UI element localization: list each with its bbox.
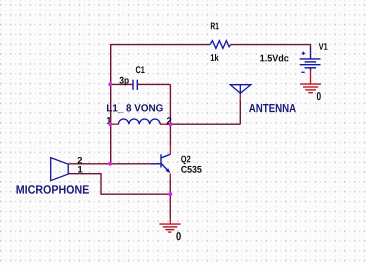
wire microphone pin 2 to rail <box>68 163 110 165</box>
pin 2 of microphone <box>78 157 83 164</box>
node inductor pin1 / left rail <box>108 122 112 126</box>
inductor L1 <box>118 119 160 124</box>
wire junction down to ground <box>169 194 171 218</box>
label L1_ 8 VONG <box>107 104 163 112</box>
label V1 text <box>319 43 328 50</box>
label C535 <box>181 166 201 173</box>
label 0 (emitter ground) <box>176 232 180 240</box>
pin 2 of L1 <box>167 117 172 124</box>
label ANTENNA <box>249 104 296 112</box>
plus sign of V1 <box>302 52 305 55</box>
pin 1 of microphone <box>78 166 82 173</box>
label R1 value text <box>211 23 219 30</box>
ground 0 under transistor <box>159 224 180 232</box>
pin stub emitter (red) <box>169 173 171 179</box>
microphone <box>51 158 68 181</box>
transistor Q2 <box>151 154 170 172</box>
wire right vertical capacitor corner down to collector <box>169 84 171 145</box>
wire top rail left segment <box>110 44 210 46</box>
wire rail to transistor base <box>111 163 151 165</box>
pin 1 of L1 <box>107 117 111 124</box>
arrow of Q2 emitter <box>166 168 170 172</box>
label 1.5Vdc <box>260 54 288 61</box>
wire capacitor row right <box>138 83 171 85</box>
wire battery corner drop <box>310 44 312 49</box>
label C1 text <box>136 66 145 73</box>
wire battery to ground 0 (red) <box>310 71 312 85</box>
resistor R1 <box>210 41 231 49</box>
capacitor C1 <box>133 80 137 90</box>
junction node dots <box>108 83 172 197</box>
wire capacitor row left <box>111 83 133 85</box>
label Q2 text <box>181 156 190 165</box>
antenna <box>230 85 251 94</box>
wire emitter to junction <box>169 179 171 194</box>
pin stub antenna (red) <box>239 93 241 101</box>
ground 0 under battery <box>300 84 321 93</box>
minus sign of V1 <box>301 71 304 73</box>
label 1k <box>211 54 219 61</box>
node capacitor row / left rail <box>108 83 112 87</box>
wire antenna horizontal <box>170 123 240 125</box>
battery V1 <box>300 48 321 70</box>
pin stub ground (red) <box>169 218 171 224</box>
wire top rail right segment to battery <box>231 44 311 46</box>
label 3p <box>119 77 128 86</box>
label MICROPHONE <box>17 185 89 193</box>
node inductor pin2 / collector / antenna <box>169 122 173 126</box>
wire antenna vertical <box>239 101 241 124</box>
wire microphone pin 1 return path <box>68 174 170 195</box>
node mic pin2 / transistor base <box>108 162 112 166</box>
pin stub inductor right (red) <box>160 123 166 125</box>
label 0 (battery ground) <box>317 92 321 100</box>
pin stub inductor left (red) <box>111 123 119 125</box>
wire left vertical rail <box>110 45 112 164</box>
node emitter / mic return / ground <box>168 192 172 196</box>
pin stub collector (red) <box>169 146 171 155</box>
